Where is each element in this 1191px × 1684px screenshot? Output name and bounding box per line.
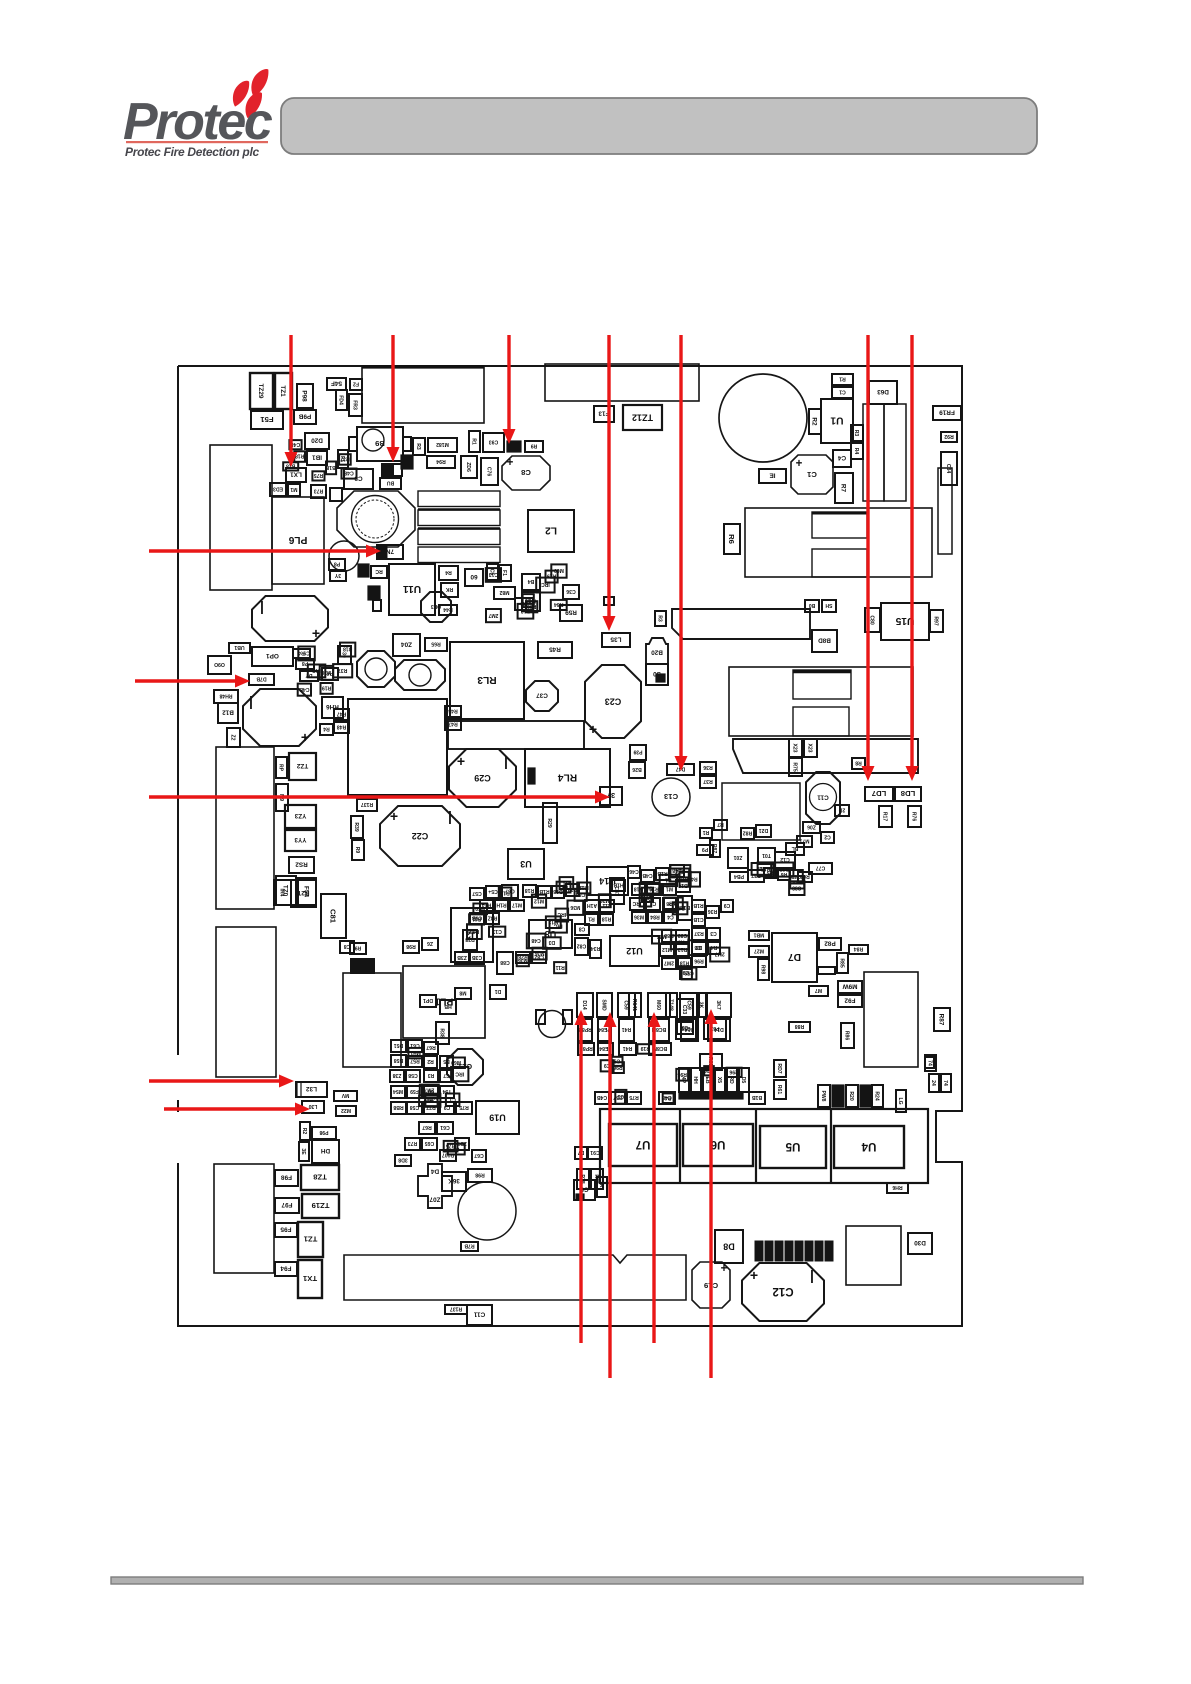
svg-text:P98: P98 [301, 390, 308, 402]
resistor R20 [846, 1085, 858, 1107]
dark part b [860, 1085, 871, 1107]
LED LD8 (arrow7 target) [895, 787, 921, 801]
resistor R24x [872, 1085, 883, 1107]
cluster part R19 [647, 884, 661, 895]
svg-text:C57: C57 [472, 890, 482, 896]
resistor DYQ [300, 671, 318, 681]
LED LD7 (arrow6 target) [865, 787, 893, 801]
capacitor C14 pad left [536, 1010, 545, 1024]
bottom cluster part RB8 [391, 1102, 406, 1114]
svg-text:P82: P82 [824, 940, 836, 947]
svg-text:C13: C13 [664, 792, 678, 801]
svg-text:R7B: R7B [464, 1243, 475, 1249]
svg-text:C8: C8 [579, 926, 586, 932]
bottom cluster part R77 [424, 1102, 438, 1114]
svg-text:U19: U19 [489, 1112, 506, 1122]
cluster filler centre-left part 1 (IRC) [557, 882, 571, 893]
svg-text:R11: R11 [555, 964, 564, 970]
varistor TZ12 [623, 405, 662, 430]
cluster part R18 [632, 884, 645, 895]
resistor PNB [329, 559, 345, 570]
relay RL4 [525, 749, 610, 807]
resistor M82 [494, 587, 515, 599]
svg-text:R96: R96 [677, 1071, 687, 1077]
svg-text:R65: R65 [431, 641, 441, 647]
opto drive part mid 3 [619, 1019, 634, 1041]
cluster filler mid-left part 7 (M36) [320, 666, 334, 680]
svg-text:D20: D20 [311, 437, 323, 444]
IC U2 [451, 908, 493, 962]
cluster filler top-mid part 2 (R19) [546, 571, 558, 583]
svg-text:R76: R76 [911, 812, 917, 822]
fuse F51 [251, 411, 283, 429]
opto row divider at U5 [830, 1109, 832, 1183]
resistor PR39 [630, 745, 646, 760]
cluster filler centre-left part 8 (IRC) [550, 920, 567, 933]
svg-text:Z04: Z04 [401, 641, 412, 648]
resistor R98a [350, 943, 366, 954]
resistor P98 [297, 384, 313, 408]
cluster above opto R8B [700, 1054, 722, 1070]
B9 tab right [403, 437, 411, 451]
svg-text:SH: SH [825, 602, 832, 608]
svg-text:ED3: ED3 [273, 486, 283, 492]
cluster filler centre-right part 3 (C13) [642, 888, 653, 902]
svg-text:T01: T01 [762, 852, 771, 858]
capacitor C59b [676, 1019, 696, 1039]
capacitor C8d [574, 1180, 595, 1200]
svg-text:R94: R94 [436, 458, 446, 464]
resistor C67x [472, 1150, 486, 1162]
centre cluster part C3B [470, 952, 484, 964]
svg-text:M27: M27 [754, 948, 764, 954]
svg-text:R41: R41 [623, 1045, 633, 1051]
varistor TZ0 [276, 876, 296, 905]
svg-text:R1: R1 [471, 438, 477, 445]
resistor X23a [789, 739, 802, 757]
opto drive part mid 4 [649, 1019, 669, 1041]
resistor BIB1 [749, 1092, 765, 1104]
PCB board outline [178, 366, 962, 1326]
svg-text:C91: C91 [590, 1149, 600, 1155]
svg-text:TZ1: TZ1 [303, 1235, 317, 1244]
cluster part M12b [660, 944, 674, 956]
inductor L30 (arrow12 target) [302, 1101, 324, 1113]
cluster filler centre-right part 5 (D3) [688, 940, 707, 955]
svg-text:Z3B: Z3B [457, 954, 467, 960]
svg-text:D3: D3 [563, 879, 570, 885]
svg-text:MB1: MB1 [753, 932, 764, 938]
cluster part R6c [778, 870, 790, 880]
resistor RPM [276, 757, 287, 778]
resistor OP1 [252, 647, 293, 666]
fuse FR13 [594, 406, 614, 422]
opto drive part mid 2 [598, 1019, 611, 1041]
capacitor C76 [481, 458, 498, 485]
bottom cluster part B5 [440, 1056, 453, 1068]
resistor R9a [525, 441, 543, 452]
transistor B9 [357, 427, 403, 461]
electrolytic capacitor C2 can [719, 374, 807, 462]
svg-text:C13: C13 [489, 571, 499, 577]
svg-text:RL3: RL3 [477, 674, 497, 685]
resistor R176 [908, 806, 921, 827]
svg-text:M12: M12 [534, 897, 544, 903]
callout arrow 16 [709, 1022, 712, 1378]
svg-text:OP1: OP1 [266, 652, 279, 659]
diode Z04 [393, 634, 420, 656]
svg-text:C93: C93 [489, 439, 499, 445]
cluster filler above-opto part 5 (R4) [663, 1093, 674, 1103]
resistor RB9 [352, 840, 364, 860]
cluster filler above-opto part 9 (R96) [727, 1068, 742, 1077]
cluster filler bottom-left part 4 (2M7) [420, 1085, 439, 1096]
varistor TZ2 [289, 753, 316, 780]
svg-text:C34: C34 [945, 464, 951, 474]
cluster filler centre-right part 16 (C1) [660, 875, 677, 886]
cluster part R96b [692, 956, 706, 967]
svg-text:F98: F98 [281, 1174, 292, 1181]
svg-text:M22: M22 [341, 1107, 351, 1113]
svg-text:C76: C76 [486, 467, 492, 477]
svg-text:C13: C13 [492, 928, 502, 934]
RL4 tab [528, 768, 535, 784]
svg-text:3K: 3K [698, 1002, 704, 1009]
cluster filler bottom-left part 8 (M60) [447, 1058, 465, 1069]
resistor R73b [413, 438, 425, 455]
resistor PWB [818, 1085, 830, 1107]
svg-text:+: + [750, 1267, 758, 1283]
svg-text:C81: C81 [329, 909, 338, 924]
resistor R107 [440, 1150, 456, 1161]
svg-text:R4: R4 [853, 448, 859, 455]
svg-text:R87: R87 [938, 1014, 945, 1026]
resistor T14B [666, 993, 677, 1017]
svg-text:R9: R9 [354, 847, 360, 854]
diode D63 [869, 381, 897, 404]
svg-text:+: + [312, 625, 320, 641]
svg-text:74: 74 [942, 1080, 948, 1086]
svg-text:D7B: D7B [256, 676, 267, 682]
cluster filler top-left part 7 (R37) [339, 454, 351, 465]
chip left of U11 b [373, 600, 381, 611]
svg-text:IRC: IRC [455, 1070, 464, 1076]
arrow8 target 7N [377, 545, 403, 559]
svg-text:RS2: RS2 [295, 861, 308, 868]
callout arrow 8 [149, 549, 368, 552]
svg-text:R4: R4 [445, 569, 452, 575]
svg-text:R9: R9 [531, 443, 538, 449]
cluster filler top-left part 5 (B18) [283, 462, 298, 470]
svg-text:U4: U4 [861, 1140, 876, 1152]
cluster filler mid-left part 1 (C4B) [298, 684, 311, 696]
svg-text:LG: LG [897, 1097, 903, 1104]
centre cluster part R1B [538, 886, 551, 898]
fuse FR32a [350, 379, 362, 390]
resistor R79 [925, 1057, 934, 1068]
callout arrow 7 [910, 335, 913, 768]
IC U8 [529, 920, 572, 948]
svg-text:M60: M60 [475, 905, 485, 911]
cluster filler centre-right part 9 (C9) [680, 966, 692, 979]
resistor RJHZ [300, 1122, 310, 1140]
svg-text:M60: M60 [655, 1000, 661, 1010]
power block inner a [812, 512, 867, 538]
cluster part R4b [708, 942, 720, 954]
svg-text:R7: R7 [717, 821, 724, 827]
cluster above opto D5 [739, 1068, 749, 1092]
resistor M94 [427, 456, 455, 468]
capacitor C8b [340, 941, 354, 953]
diode D47 (arrow5 target) [667, 764, 694, 775]
resistor R29v [543, 803, 557, 843]
IC U1 [821, 399, 853, 443]
svg-text:M36: M36 [321, 669, 331, 675]
svg-text:C58: C58 [410, 1104, 420, 1110]
bottom cluster part Z38 [390, 1070, 404, 1082]
svg-text:2D: 2D [838, 807, 845, 813]
diode D21 [756, 825, 771, 837]
socket S0 [646, 664, 668, 685]
svg-text:RD7: RD7 [776, 1063, 782, 1073]
dark part a [832, 1085, 844, 1107]
resistor R92b [818, 967, 835, 974]
svg-text:R75: R75 [459, 1104, 469, 1110]
svg-text:R48: R48 [337, 724, 347, 730]
resistor R1b [832, 387, 853, 398]
resistor 7-4b [929, 1074, 939, 1092]
IC D7 [772, 933, 817, 982]
svg-text:C59: C59 [681, 1025, 691, 1031]
connector PL2 bottom strip [344, 1255, 686, 1300]
svg-text:HH: HH [692, 1076, 698, 1084]
centre cluster part M17 [510, 900, 524, 911]
capacitor C8 can [502, 456, 550, 490]
resistor R4c [320, 724, 333, 735]
optocoupler OP3 [421, 592, 451, 622]
resistor RD7 [774, 1060, 786, 1077]
svg-text:HB: HB [444, 1003, 452, 1009]
svg-text:R97: R97 [933, 616, 939, 626]
svg-text:R73: R73 [314, 488, 324, 494]
svg-text:X5: X5 [716, 1077, 722, 1083]
Protec logo red underline [126, 141, 268, 143]
fuse F97 [275, 1198, 299, 1213]
big block mid-right [729, 667, 913, 736]
svg-text:R67: R67 [422, 1124, 432, 1130]
cluster part C77c [809, 863, 832, 874]
svg-text:YZ3: YZ3 [294, 812, 306, 819]
transformer block right b [884, 404, 906, 501]
svg-text:3E: 3E [300, 1148, 306, 1155]
cluster filler mid-left part 2 (R37) [333, 664, 352, 677]
svg-text:D30: D30 [914, 1239, 926, 1246]
cluster part C4B [641, 870, 654, 882]
cluster filler centre-left part 9 (M12) [546, 916, 561, 928]
cluster filler top-mid part 4 (C13) [486, 568, 501, 582]
svg-text:C4: C4 [837, 454, 846, 461]
svg-text:R9: R9 [355, 945, 362, 951]
cluster filler centre-left part 17 (D3) [560, 877, 574, 889]
resistor X95 [604, 597, 614, 605]
cluster part R5c [764, 868, 776, 878]
svg-text:RC: RC [375, 568, 383, 574]
resistor UB1 [229, 643, 250, 653]
svg-text:M36: M36 [600, 897, 610, 903]
capacitor C3Y [677, 1022, 693, 1034]
diode B12 [218, 703, 238, 723]
inductor L32 (arrow11 target) [296, 1082, 327, 1097]
cluster part R18b [678, 958, 691, 969]
resistor R82 [741, 828, 754, 839]
bottom cluster part T54 [440, 1086, 454, 1098]
resistor R19B [351, 959, 374, 973]
diode block D8 [715, 1230, 743, 1263]
capacitor C60 [465, 569, 483, 586]
callout arrow 11 [149, 1079, 281, 1082]
resistor R73c [405, 1138, 420, 1150]
opto drive part mid 1 [578, 1019, 592, 1041]
cluster filler bottom-left part 7 (C1) [448, 1144, 465, 1155]
svg-text:R75: R75 [314, 472, 324, 478]
bottom cluster part R3 [424, 1070, 438, 1082]
Protec logo flame lower-right [246, 92, 263, 118]
big square REG1 [348, 699, 447, 795]
svg-text:RP: RP [278, 764, 284, 772]
svg-text:C88: C88 [576, 891, 586, 897]
svg-text:R84: R84 [554, 601, 564, 607]
svg-text:U1: U1 [830, 414, 843, 425]
callout arrow 3 [507, 335, 510, 431]
svg-text:60: 60 [470, 573, 478, 580]
opto U6 inner [683, 1124, 753, 1166]
resistor R59 [560, 605, 582, 621]
svg-text:C1: C1 [806, 470, 817, 479]
svg-text:B18: B18 [675, 905, 685, 911]
cluster filler right part 1 (B18) [758, 862, 774, 876]
fuse F94 [275, 1262, 297, 1276]
cluster part PB4c [730, 872, 748, 882]
cluster filler centre-left part 7 (IRC) [556, 909, 569, 922]
centre cluster part C8Z [532, 952, 546, 963]
cluster filler centre-left part 20 (R13) [499, 888, 512, 900]
svg-text:Z01: Z01 [733, 854, 742, 860]
resistor R47c [445, 719, 461, 730]
svg-text:B26: B26 [632, 766, 642, 772]
svg-text:ZD6: ZD6 [465, 462, 471, 472]
svg-text:IRC: IRC [541, 581, 550, 587]
svg-text:R84: R84 [854, 946, 864, 952]
cluster filler above-opto part 1 (R96) [612, 1062, 624, 1073]
svg-text:D14: D14 [581, 1000, 587, 1010]
svg-text:C7: C7 [443, 1072, 450, 1078]
L32 left bar [297, 1082, 301, 1097]
bottom cluster part R57 [408, 1056, 422, 1067]
svg-text:U7: U7 [636, 1138, 651, 1150]
cluster part A1H [585, 900, 599, 912]
resistor C46 [628, 866, 640, 878]
capacitor C5 can [362, 429, 384, 451]
resistor R75x [627, 1092, 641, 1104]
fuse RS3 [289, 857, 314, 873]
svg-text:BU: BU [387, 480, 395, 486]
svg-text:M54: M54 [393, 1088, 403, 1094]
resistor R7 [835, 473, 853, 503]
resistor C4B2 [659, 1092, 675, 1104]
svg-text:R13: R13 [500, 890, 510, 896]
arrow2 target EW [393, 464, 402, 476]
cluster filler bottom-left part 5 (M60) [408, 1048, 423, 1058]
resistor R72x [714, 820, 727, 830]
cluster filler bottom-left part 2 (C1) [446, 1094, 460, 1107]
cluster part C4 [664, 912, 677, 923]
cluster part D3b [692, 942, 706, 954]
cluster filler bottom-left part 1 (C59) [425, 1094, 440, 1107]
resistor B26 [629, 762, 645, 778]
svg-text:R39: R39 [353, 822, 359, 832]
bottom cluster part U9 [424, 1086, 438, 1098]
svg-text:C67: C67 [474, 1152, 484, 1158]
svg-text:C59: C59 [686, 1000, 692, 1010]
resistor R65 [425, 638, 447, 651]
svg-text:R8: R8 [855, 760, 862, 766]
svg-text:YY3: YY3 [294, 836, 307, 843]
connector PL1 [403, 966, 485, 1038]
svg-text:P9B: P9B [298, 413, 311, 420]
resistor X23b [804, 739, 817, 757]
resistor R87r [934, 1008, 950, 1031]
cluster part R18 [600, 914, 613, 925]
capacitor C13 can [652, 778, 690, 816]
svg-text:Z6: Z6 [427, 940, 433, 946]
varistor TZ19 [302, 1194, 339, 1218]
svg-text:R29: R29 [546, 818, 552, 828]
cluster filler centre-left part 14 (M36) [533, 948, 547, 960]
svg-text:C1: C1 [839, 389, 846, 395]
cluster part 2M7b [662, 958, 676, 969]
svg-text:RB8: RB8 [393, 1104, 403, 1110]
svg-text:R75: R75 [629, 1094, 639, 1100]
svg-text:36K: 36K [448, 1177, 460, 1184]
resistor RIL [700, 828, 712, 838]
svg-text:M36: M36 [518, 957, 528, 963]
resistor P82 [819, 938, 841, 950]
svg-text:+: + [589, 721, 597, 737]
bottom cluster part C7 [440, 1070, 453, 1082]
inductor L2 [528, 510, 574, 552]
resistor R75 [789, 758, 802, 776]
resistor R44 [439, 605, 457, 615]
svg-text:C48: C48 [641, 897, 651, 903]
svg-text:R24: R24 [874, 1091, 880, 1101]
capacitor C93a [483, 433, 504, 452]
svg-text:R61: R61 [776, 1085, 782, 1095]
DIP switch SW1 [755, 1241, 763, 1261]
cluster filler centre-right part 7 (B18) [673, 902, 688, 914]
svg-text:C59: C59 [623, 1000, 629, 1010]
svg-text:C5+: C5+ [488, 888, 498, 894]
svg-text:+: + [507, 457, 514, 469]
opto U7 inner [609, 1124, 677, 1166]
mid-right inner a thick top [793, 670, 851, 673]
svg-text:EB: EB [704, 1076, 710, 1083]
varistor TZ8 [301, 1165, 339, 1190]
resistor FB1 [338, 450, 348, 468]
resistor M27 [749, 946, 769, 957]
svg-text:D7: D7 [788, 951, 801, 962]
opto drive part top 1 [577, 993, 593, 1017]
resistor R48 [334, 722, 349, 733]
